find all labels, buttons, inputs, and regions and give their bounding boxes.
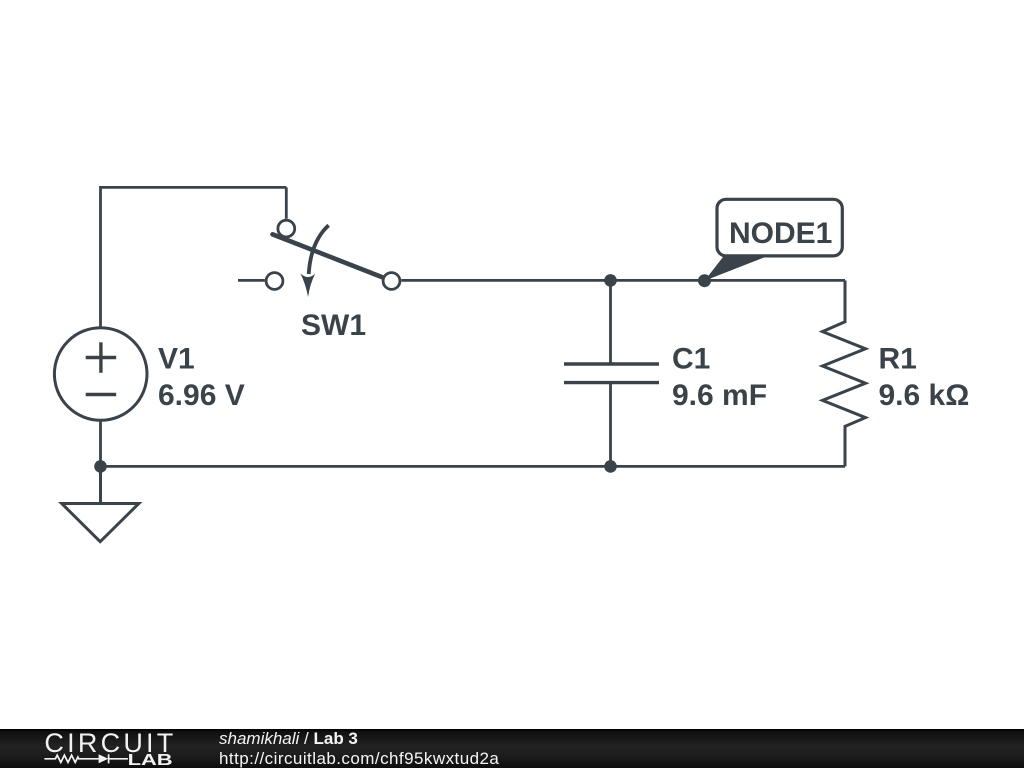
wire capacitor bottom lead: [609, 383, 612, 467]
CircuitLab logo: [0, 729, 200, 768]
svg-text:NODE1: NODE1: [729, 217, 832, 250]
footer text line 2: [219, 749, 499, 768]
switch SW1: [266, 220, 400, 289]
svg-text:R1: R1: [879, 342, 917, 375]
logo squiggle: lead, resistor zigzag, diode: [44, 754, 128, 763]
svg-text:9.6 kΩ: 9.6 kΩ: [879, 379, 970, 412]
junction dot cap-bottom: [604, 460, 617, 473]
wire left vertical lower: [99, 420, 102, 466]
switch action arrow: [309, 225, 329, 274]
ground: [62, 466, 139, 541]
footer bar: [0, 729, 1024, 768]
resistor R1: [823, 280, 866, 466]
switch arrow head: [300, 273, 315, 297]
voltage source V1: [54, 328, 147, 421]
svg-text:LAB: LAB: [128, 752, 173, 768]
wire switch drop: [285, 187, 288, 218]
junction dot left-bottom: [94, 460, 107, 473]
node NODE1 dot: [698, 274, 711, 287]
switch blade: [273, 234, 383, 277]
node NODE1 balloon: [717, 199, 842, 256]
wire switch stub left: [238, 279, 265, 282]
node NODE1 pointer tail: [705, 253, 770, 281]
wire capacitor top lead: [609, 280, 612, 364]
footer text line 1: [219, 729, 358, 749]
svg-text:9.6 mF: 9.6 mF: [672, 379, 767, 412]
wire top horizontal: [101, 186, 287, 189]
svg-text:6.96 V: 6.96 V: [158, 379, 245, 412]
wire bottom horizontal: [101, 465, 846, 468]
svg-text:C1: C1: [672, 342, 710, 375]
junction dot cap-top: [604, 274, 617, 287]
svg-text:SW1: SW1: [301, 309, 366, 342]
wire switch to right: [401, 279, 845, 282]
capacitor C1 plates: [564, 364, 659, 383]
svg-text:V1: V1: [158, 342, 195, 375]
wire left vertical upper: [99, 186, 102, 328]
